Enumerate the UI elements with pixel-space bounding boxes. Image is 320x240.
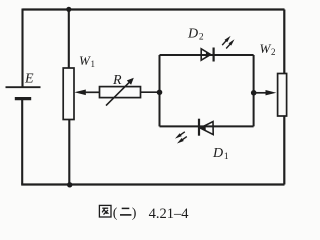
wire bridge right — [253, 55, 255, 126]
light arrows D2 — [221, 35, 236, 50]
node top junction — [66, 7, 71, 12]
potentiometer W1 — [63, 68, 74, 120]
resistor R — [100, 87, 141, 98]
glyph 二 — [120, 208, 131, 215]
wiper arrow W2 — [266, 90, 277, 95]
wire W1 branch lower — [68, 120, 70, 185]
wire wiper W1 to R — [85, 91, 100, 93]
wire bridge to W2 wiper — [254, 92, 269, 94]
wire W1 branch upper — [68, 10, 70, 69]
svg-text:W1: W1 — [79, 53, 95, 69]
battery E — [6, 87, 41, 98]
caption 图(二) 4.21-4 — [99, 205, 189, 221]
wire left upper — [21, 9, 23, 87]
svg-text:D1: D1 — [212, 146, 229, 162]
wire bridge bottom — [160, 125, 254, 127]
potentiometer W2 — [278, 74, 287, 117]
svg-text:E: E — [24, 72, 34, 87]
wire bottom — [21, 183, 284, 185]
svg-text:4.21–4: 4.21–4 — [149, 206, 190, 222]
wire R to bridge — [141, 91, 160, 93]
svg-text:(: ( — [113, 206, 118, 221]
node bottom junction — [67, 182, 72, 187]
node bridge right — [251, 90, 257, 96]
light arrows D1 — [174, 130, 188, 145]
svg-text:D2: D2 — [187, 27, 204, 43]
wiper arrow W1 — [74, 90, 86, 96]
LED D1 — [199, 119, 213, 136]
wire bridge left — [159, 55, 161, 126]
glyph 图 — [99, 205, 111, 217]
wire top — [23, 8, 285, 10]
wire right lower — [283, 116, 285, 185]
node bridge left — [157, 90, 163, 96]
svg-text:W2: W2 — [260, 41, 276, 57]
wire bridge top — [160, 54, 254, 56]
arrow through R — [106, 78, 134, 106]
svg-text:R: R — [112, 73, 122, 88]
svg-text:): ) — [132, 206, 137, 221]
wire left lower — [21, 99, 23, 185]
LED D2 — [201, 48, 213, 62]
wire right upper — [283, 10, 285, 74]
